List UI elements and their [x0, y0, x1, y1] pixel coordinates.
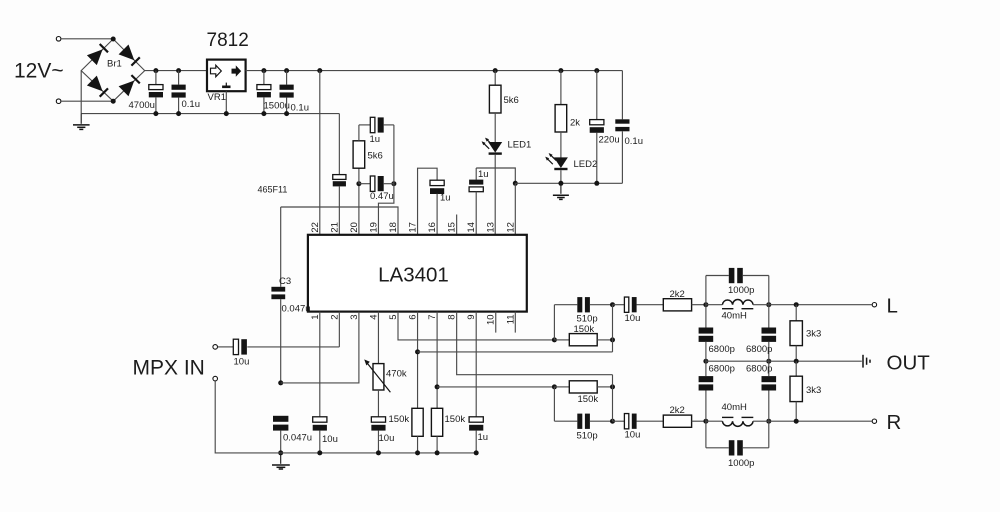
- label Br1: [107, 59, 122, 70]
- wire filter left: [705, 276, 707, 328]
- label 10u: [625, 313, 641, 324]
- label 0.047u: [282, 303, 311, 314]
- ground LED net: [553, 183, 569, 199]
- label 6800p: [709, 364, 735, 375]
- svg-text:40mH: 40mH: [722, 402, 747, 413]
- label 1u: [370, 134, 381, 145]
- wire OUT: [706, 360, 862, 362]
- resistor 2k: [555, 71, 567, 158]
- terminal R: [872, 419, 876, 423]
- label 12V~: [14, 60, 64, 83]
- label 1000p: [728, 458, 754, 469]
- svg-text:9: 9: [466, 314, 477, 319]
- wire: [80, 71, 82, 114]
- junction: [474, 450, 479, 455]
- svg-text:150k: 150k: [578, 394, 599, 405]
- resistor 150k: [554, 381, 612, 393]
- svg-text:4700u: 4700u: [129, 100, 155, 111]
- junction: [766, 419, 771, 424]
- capacitor 1000p bottom: [706, 440, 769, 455]
- wire pin15 stub: [456, 215, 458, 235]
- label 1000p: [728, 285, 754, 296]
- wire pin20: [358, 184, 360, 235]
- pin 8 label: [447, 314, 458, 319]
- junction: [415, 349, 420, 354]
- svg-text:L: L: [887, 295, 898, 318]
- wire: [61, 38, 113, 40]
- svg-text:10u: 10u: [625, 429, 641, 440]
- wire: [215, 381, 281, 453]
- LED2: [545, 153, 568, 169]
- capacitor 6800p: [762, 328, 777, 377]
- junction: [493, 68, 498, 73]
- svg-text:16: 16: [427, 222, 438, 233]
- label 1u: [478, 169, 489, 180]
- pin 9 label: [466, 314, 477, 319]
- pin 12 label: [505, 222, 516, 233]
- svg-text:510p: 510p: [577, 431, 598, 442]
- wire pin22: [319, 71, 321, 235]
- capacitor 1000p top: [706, 268, 769, 283]
- svg-text:LED1: LED1: [508, 140, 532, 151]
- label R: [887, 411, 902, 434]
- svg-text:10u: 10u: [379, 433, 395, 444]
- capacitor 510p: [554, 414, 612, 429]
- wire: [612, 375, 614, 422]
- junction: [552, 384, 557, 389]
- svg-text:0.047u: 0.047u: [283, 432, 312, 443]
- junction node B: [391, 181, 396, 186]
- label 465F11: [258, 185, 288, 195]
- wire pin6: [417, 312, 419, 409]
- pin 20 label: [349, 222, 360, 233]
- svg-text:0.47u: 0.47u: [370, 191, 394, 202]
- junction: [435, 384, 440, 389]
- label 150k: [578, 394, 599, 405]
- svg-text:5: 5: [388, 314, 399, 319]
- label 510p: [577, 431, 598, 442]
- pin 6 label: [408, 314, 419, 319]
- svg-text:2: 2: [329, 314, 340, 319]
- regulator VR1 7812: [207, 60, 246, 92]
- svg-text:21: 21: [329, 222, 340, 233]
- capacitor C3: [271, 207, 285, 383]
- junction: [610, 302, 615, 307]
- svg-text:10u: 10u: [234, 356, 250, 367]
- label 2k: [570, 118, 580, 129]
- junction: [558, 181, 563, 186]
- junction: [610, 384, 615, 389]
- junction: [376, 450, 381, 455]
- label 6800p: [746, 344, 772, 355]
- wire pin18: [281, 207, 398, 235]
- wire pin2: [338, 312, 340, 347]
- capacitor 1u pin14: [469, 168, 483, 235]
- label LED2: [574, 159, 598, 170]
- svg-text:3k3: 3k3: [806, 385, 821, 396]
- junction: [415, 450, 420, 455]
- capacitor 4700u: [149, 71, 163, 114]
- svg-text:20: 20: [349, 222, 360, 233]
- capacitor 1500u: [257, 71, 271, 114]
- svg-text:10u: 10u: [625, 313, 641, 324]
- svg-text:LED2: LED2: [574, 159, 598, 170]
- svg-text:8: 8: [447, 314, 458, 319]
- junction: [610, 419, 615, 424]
- junction: [794, 359, 799, 364]
- svg-text:18: 18: [388, 222, 399, 233]
- svg-text:150k: 150k: [389, 414, 410, 425]
- capacitor 10u L: [613, 297, 664, 312]
- svg-text:22: 22: [310, 222, 321, 233]
- pin 19 label: [368, 222, 379, 233]
- capacitor 10u pin1: [313, 312, 327, 453]
- junction: [261, 111, 266, 116]
- pin 17 label: [408, 222, 419, 233]
- capacitor 10u MPX: [218, 339, 340, 354]
- label 220u: [599, 135, 620, 146]
- wire pin10 stub: [495, 312, 497, 333]
- svg-text:14: 14: [466, 222, 477, 233]
- label 5k6: [504, 95, 519, 106]
- svg-text:C3: C3: [279, 276, 291, 287]
- junction: [224, 111, 229, 116]
- svg-text:VR1: VR1: [208, 92, 226, 103]
- wire L out: [769, 304, 872, 306]
- junction: [794, 302, 799, 307]
- label 510p: [577, 314, 598, 325]
- wire pin12 link: [476, 168, 515, 183]
- bridge rectifier Br1: [81, 39, 145, 101]
- pin 2 label: [329, 314, 340, 319]
- label 0.1u: [291, 103, 310, 114]
- wire: [225, 91, 227, 113]
- junction: [766, 302, 771, 307]
- junction: [610, 337, 615, 342]
- junction: [703, 302, 708, 307]
- junction: [552, 337, 557, 342]
- junction: [766, 359, 771, 364]
- capacitor 0.1u: [615, 71, 629, 184]
- label 40mH: [722, 310, 747, 321]
- svg-text:7812: 7812: [207, 30, 249, 51]
- resistor 470k: [364, 312, 390, 417]
- junction: [513, 181, 518, 186]
- label 150k: [574, 324, 595, 335]
- pin 4 label: [368, 314, 379, 319]
- junction bottom corner Br1: [111, 99, 116, 104]
- svg-text:2k2: 2k2: [670, 405, 685, 416]
- svg-text:3: 3: [349, 314, 360, 319]
- resistor 150k: [412, 408, 423, 453]
- capacitor 0.047u: [273, 416, 288, 453]
- svg-text:0.1u: 0.1u: [182, 99, 201, 110]
- wire pin8: [457, 312, 613, 375]
- svg-text:470k: 470k: [386, 368, 407, 379]
- label VR1: [208, 92, 226, 103]
- terminal L: [872, 303, 876, 307]
- label 40mH: [722, 402, 747, 413]
- capacitor pin21: [333, 175, 346, 235]
- IC U1 LA3401: [308, 235, 527, 312]
- capacitor 0.1u: [280, 71, 294, 114]
- capacitor 10u pin4: [371, 417, 385, 453]
- svg-text:465F11: 465F11: [258, 185, 288, 195]
- junction: [317, 450, 322, 455]
- svg-text:1u: 1u: [478, 432, 489, 443]
- svg-text:11: 11: [505, 314, 516, 324]
- capacitor 220u: [590, 71, 604, 184]
- wire pin17: [418, 168, 438, 235]
- label LA3401: [378, 263, 449, 286]
- pin 14 label: [466, 222, 477, 233]
- wire pin19: [378, 184, 393, 235]
- label 0.1u: [182, 99, 201, 110]
- label MPX IN: [133, 356, 205, 379]
- label 10u: [379, 433, 395, 444]
- label 3k3: [806, 385, 821, 396]
- svg-text:OUT: OUT: [887, 351, 931, 374]
- capacitor 510p: [554, 297, 612, 312]
- junction: [794, 419, 799, 424]
- svg-text:1u: 1u: [440, 193, 451, 204]
- input terminal AC2: [56, 99, 61, 104]
- svg-text:2k2: 2k2: [670, 289, 685, 300]
- label 0.047u: [283, 432, 312, 443]
- wire filter right: [768, 276, 770, 328]
- wire: [61, 100, 113, 102]
- capacitor 1u pin16: [430, 180, 444, 235]
- svg-text:150k: 150k: [574, 324, 595, 335]
- wire pin7 to R net: [437, 386, 554, 388]
- svg-text:Br1: Br1: [107, 59, 122, 70]
- label 6800p: [746, 364, 772, 375]
- inductor 40mH L: [706, 300, 769, 309]
- label 2k2: [670, 289, 685, 300]
- svg-text:0.1u: 0.1u: [291, 103, 310, 114]
- wire net LED: [515, 182, 622, 184]
- svg-text:13: 13: [486, 222, 497, 233]
- junction: [703, 359, 708, 364]
- junction: [261, 68, 266, 73]
- label 6800p: [709, 344, 735, 355]
- svg-text:12V~: 12V~: [14, 60, 64, 83]
- wire: [612, 305, 614, 352]
- label 1u: [478, 432, 489, 443]
- wire pin7: [436, 312, 438, 409]
- resistor 2k2 R: [663, 415, 706, 427]
- pin 5 label: [388, 314, 399, 319]
- wire pin11 stub: [514, 312, 516, 333]
- svg-text:1u: 1u: [478, 169, 489, 180]
- svg-text:R: R: [887, 411, 902, 434]
- svg-text:3k3: 3k3: [806, 329, 821, 340]
- resistor 5k6 LED1: [489, 71, 501, 143]
- svg-text:4: 4: [368, 314, 379, 319]
- label 10u: [625, 429, 641, 440]
- wire: [560, 170, 562, 183]
- resistor 150k: [431, 408, 442, 453]
- junction: [558, 68, 563, 73]
- capacitor 10u R: [613, 414, 664, 429]
- svg-text:220u: 220u: [599, 135, 620, 146]
- svg-text:6800p: 6800p: [746, 364, 772, 375]
- wire: [553, 387, 555, 421]
- junction: [435, 450, 440, 455]
- label 10u: [322, 434, 338, 445]
- svg-text:10u: 10u: [322, 434, 338, 445]
- label 10u: [234, 356, 250, 367]
- pin 13 label: [486, 222, 497, 233]
- label 3k3: [806, 329, 821, 340]
- pin 15 label: [447, 222, 458, 233]
- capacitor 0.1u: [172, 71, 186, 114]
- label 2k2: [670, 405, 685, 416]
- svg-text:2k: 2k: [570, 118, 580, 129]
- pin 11 label: [505, 314, 516, 324]
- svg-text:150k: 150k: [445, 414, 466, 425]
- wire +12V rail: [246, 70, 623, 72]
- svg-text:12: 12: [505, 222, 516, 233]
- svg-text:40mH: 40mH: [722, 310, 747, 321]
- svg-text:5k6: 5k6: [368, 151, 383, 162]
- junction: [278, 450, 283, 455]
- wire +12V rail: [145, 70, 207, 72]
- svg-text:5k6: 5k6: [504, 95, 519, 106]
- capacitor 6800p: [762, 376, 777, 448]
- pin 10 label: [486, 314, 497, 325]
- capacitor 1u pin9: [469, 312, 483, 453]
- capacitor 0.47u: [359, 176, 394, 191]
- capacitor 6800p: [699, 376, 714, 448]
- junction: [284, 111, 289, 116]
- svg-text:6800p: 6800p: [709, 364, 735, 375]
- svg-text:0.047u: 0.047u: [282, 303, 311, 314]
- label C3: [279, 276, 291, 287]
- wire bottom ground rail: [281, 452, 477, 454]
- wire pin3: [281, 312, 359, 383]
- wire ground rail: [81, 113, 339, 115]
- label 4700u: [129, 100, 155, 111]
- svg-text:0.1u: 0.1u: [625, 136, 644, 147]
- label OUT: [887, 351, 931, 374]
- pin 18 label: [388, 222, 399, 233]
- input terminal MPX gnd: [213, 376, 218, 381]
- svg-text:10: 10: [486, 314, 497, 325]
- junction: [703, 419, 708, 424]
- pin 1 label: [310, 314, 321, 319]
- junction: [317, 68, 322, 73]
- junction: [284, 68, 289, 73]
- svg-text:MPX IN: MPX IN: [133, 356, 205, 379]
- inductor 40mH R: [706, 417, 769, 426]
- resistor 3k3: [790, 305, 802, 362]
- junction: [278, 380, 283, 385]
- wire: [338, 114, 340, 175]
- label 470k: [386, 368, 407, 379]
- resistor 2k2 L: [663, 299, 706, 311]
- svg-text:1000p: 1000p: [728, 458, 754, 469]
- junction top corner Br1: [111, 37, 116, 42]
- svg-text:6: 6: [408, 314, 419, 319]
- capacitor 6800p: [699, 328, 714, 377]
- wire pin5: [398, 312, 554, 340]
- wire pin12: [514, 183, 516, 235]
- svg-text:1: 1: [310, 314, 321, 319]
- LED1: [482, 138, 503, 154]
- wire R out: [769, 420, 872, 422]
- junction: [176, 68, 181, 73]
- label 150k: [445, 414, 466, 425]
- svg-text:6800p: 6800p: [746, 344, 772, 355]
- pin 3 label: [349, 314, 360, 319]
- label 150k: [389, 414, 410, 425]
- wire: [553, 305, 555, 340]
- junction: [153, 111, 158, 116]
- pin 7 label: [427, 314, 438, 319]
- resistor 150k: [554, 334, 612, 346]
- svg-text:6800p: 6800p: [709, 344, 735, 355]
- ground: [73, 114, 90, 130]
- wire pin6 to L net: [418, 351, 613, 353]
- junction: [594, 181, 599, 186]
- pin 22 label: [310, 222, 321, 233]
- svg-text:1u: 1u: [370, 134, 381, 145]
- label 1u: [440, 193, 451, 204]
- label 7812: [207, 30, 249, 51]
- label 0.47u: [370, 191, 394, 202]
- label LED1: [508, 140, 532, 151]
- capacitor 1u: [370, 117, 394, 183]
- wire pin13: [494, 155, 496, 235]
- svg-text:1000p: 1000p: [728, 285, 754, 296]
- svg-text:15: 15: [447, 222, 458, 233]
- svg-text:19: 19: [368, 222, 379, 233]
- ground MPX: [272, 453, 290, 469]
- input terminal AC1: [56, 37, 61, 42]
- svg-text:1500u: 1500u: [264, 100, 290, 111]
- pin 21 label: [329, 222, 340, 233]
- svg-text:7: 7: [427, 314, 438, 319]
- label 5k6: [368, 151, 383, 162]
- pin 16 label: [427, 222, 438, 233]
- junction: [153, 68, 158, 73]
- label L: [887, 295, 898, 318]
- label 1500u: [264, 100, 290, 111]
- resistor 3k3: [790, 361, 802, 421]
- junction: [176, 111, 181, 116]
- svg-text:LA3401: LA3401: [378, 263, 449, 286]
- ground OUT: [863, 355, 870, 368]
- resistor 5k6: [353, 125, 370, 184]
- junction: [594, 68, 599, 73]
- input terminal MPX: [213, 345, 218, 350]
- junction node A: [356, 181, 361, 186]
- label 0.1u: [625, 136, 644, 147]
- svg-text:17: 17: [408, 222, 419, 233]
